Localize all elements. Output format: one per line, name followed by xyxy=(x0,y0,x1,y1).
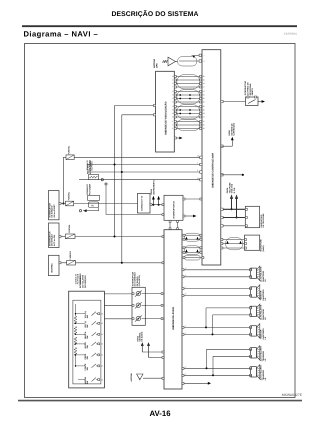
battery box xyxy=(49,255,60,275)
fuse B xyxy=(66,191,74,206)
wires to speaker SP1 xyxy=(182,267,252,278)
svg-text:46: 46 xyxy=(203,75,205,78)
telephone box xyxy=(245,206,265,227)
svg-text:26: 26 xyxy=(172,105,174,108)
svg-text:30: 30 xyxy=(172,109,174,112)
svg-text:ON ou START: ON ou START xyxy=(53,204,56,218)
wire steering 1 xyxy=(104,293,132,295)
svg-text:EKS00BA1: EKS00BA1 xyxy=(284,33,298,36)
svg-text:5: 5 xyxy=(172,124,173,127)
shielded pair audio-navi 2 xyxy=(183,246,202,255)
junction box T xyxy=(138,193,151,213)
svg-text:DE TELEFONE: DE TELEFONE xyxy=(262,213,265,228)
command switch label xyxy=(132,271,141,286)
ignition switch ON box xyxy=(48,191,59,220)
svg-text:18: 18 xyxy=(203,127,205,130)
svg-text:SW: SW xyxy=(86,324,89,327)
svg-text:18: 18 xyxy=(172,97,174,100)
relay AV box xyxy=(88,202,98,208)
bottom separator rule xyxy=(18,400,302,402)
svg-text:DESCRIÇÃO DO SISTEMA: DESCRIÇÃO DO SISTEMA xyxy=(112,9,199,18)
svg-text:2: 2 xyxy=(185,332,186,335)
svg-text:10: 10 xyxy=(203,79,205,82)
svg-text:ANTENA: ANTENA xyxy=(130,373,133,382)
svg-text:6: 6 xyxy=(185,274,186,277)
bus X2 xyxy=(121,115,123,263)
accessory relay label xyxy=(87,160,92,174)
wire L2 to audio xyxy=(59,236,164,238)
svg-text:32: 32 xyxy=(203,101,205,104)
svg-text:3: 3 xyxy=(197,169,198,172)
svg-text:SW: SW xyxy=(86,381,89,384)
svg-text:30: 30 xyxy=(101,312,103,315)
svg-text:SW: SW xyxy=(86,345,89,348)
svg-text:36: 36 xyxy=(203,105,205,108)
svg-text:SW: SW xyxy=(86,356,89,359)
speaker SP3 xyxy=(250,304,268,320)
svg-text:3: 3 xyxy=(185,366,186,369)
gps antenna shielded cable xyxy=(178,54,205,66)
wire ACC to display xyxy=(115,104,156,106)
svg-text:MKWA0827E: MKWA0827E xyxy=(282,393,303,397)
links AV to audio xyxy=(169,220,178,229)
svg-text:FUSÍVEL: FUSÍVEL xyxy=(69,250,72,259)
svg-text:DE DIREÇÃO: DE DIREÇÃO xyxy=(84,275,87,288)
svg-text:(VOLANTE): (VOLANTE) xyxy=(138,275,141,286)
wire relay to navi 1 xyxy=(88,162,202,166)
bus tap arrows xyxy=(150,180,160,206)
svg-text:FUSÍVEL: FUSÍVEL xyxy=(68,145,71,154)
svg-text:25: 25 xyxy=(203,94,205,97)
command switch box xyxy=(132,287,163,325)
wire T to AV box xyxy=(150,204,164,206)
gps antenna label xyxy=(153,58,159,68)
spare output wire xyxy=(221,174,244,176)
relay lower box xyxy=(88,195,100,200)
AV switch box xyxy=(164,195,183,220)
fuse A xyxy=(66,145,74,160)
shielded link audio-navi 3 xyxy=(183,255,204,260)
telephone wires xyxy=(221,208,246,227)
telephone tap arrows xyxy=(230,195,238,219)
svg-text:ILUMINAÇÃO: ILUMINAÇÃO xyxy=(232,122,235,135)
speaker SP1 xyxy=(250,266,268,282)
fuse A note xyxy=(86,159,93,170)
svg-text:10: 10 xyxy=(197,154,199,157)
svg-text:36: 36 xyxy=(101,378,103,381)
steering switch label xyxy=(79,273,87,288)
svg-text:SW: SW xyxy=(86,367,89,370)
svg-text:(NAVI): (NAVI) xyxy=(262,245,265,251)
svg-text:BARRAMENTO: BARRAMENTO xyxy=(152,180,155,195)
microphone box xyxy=(245,235,265,251)
svg-text:11: 11 xyxy=(172,90,174,93)
svg-text:34: 34 xyxy=(101,354,103,357)
steering switch resistor box xyxy=(69,291,105,388)
shielded pair audio-navi 1 xyxy=(183,233,202,241)
relay lower label xyxy=(86,183,91,195)
svg-text:8: 8 xyxy=(204,60,205,63)
wire relay to navi 3 xyxy=(79,177,202,181)
connector circle 1 xyxy=(101,179,103,181)
svg-text:AV: AV xyxy=(91,204,95,207)
svg-text:40: 40 xyxy=(203,109,205,112)
radio antenna xyxy=(130,373,164,382)
svg-text:21: 21 xyxy=(203,90,205,93)
accessory relay box xyxy=(88,175,98,180)
diagram frame xyxy=(25,44,296,398)
fuse C xyxy=(67,250,76,265)
svg-text:FUSÍVEL: FUSÍVEL xyxy=(68,191,71,200)
svg-text:13: 13 xyxy=(203,82,205,85)
svg-text:7: 7 xyxy=(185,286,186,289)
fuse B2 xyxy=(65,224,75,239)
svg-text:22: 22 xyxy=(172,101,174,104)
wire fuseA to navi xyxy=(74,154,202,158)
svg-text:15: 15 xyxy=(203,124,205,127)
svg-text:ACC ou ON: ACC ou ON xyxy=(53,235,56,246)
navi control unit U1 xyxy=(202,50,221,265)
svg-text:33: 33 xyxy=(172,112,174,115)
svg-text:UNIDADE DE VISUALIZAÇÃO: UNIDADE DE VISUALIZAÇÃO xyxy=(163,101,167,135)
svg-text:E CIA.: E CIA. xyxy=(233,187,236,193)
audio aux arrows xyxy=(136,331,164,358)
svg-text:CONSULTA T+A: CONSULTA T+A xyxy=(141,195,144,211)
wires to speaker SP2 xyxy=(182,286,252,297)
svg-text:4: 4 xyxy=(185,373,186,376)
connector circle 2 xyxy=(105,183,164,216)
fuse C note xyxy=(74,273,81,284)
svg-text:1: 1 xyxy=(185,325,186,328)
svg-text:28: 28 xyxy=(203,97,205,100)
riser L1 to fuse A xyxy=(62,157,66,204)
parking brake switch xyxy=(221,96,265,106)
wire steering 3 xyxy=(104,318,132,320)
display unit U2 xyxy=(156,71,175,152)
audio unit U3 xyxy=(164,230,182,389)
svg-text:UNIDADE DE CONTROLE NAVI: UNIDADE DE CONTROLE NAVI xyxy=(211,153,214,188)
speaker SP4 xyxy=(250,324,268,340)
speaker SP5 xyxy=(250,345,268,361)
svg-text:SW: SW xyxy=(86,315,89,318)
bus X1 xyxy=(114,106,116,237)
speaker SP6 xyxy=(250,364,268,380)
svg-text:37: 37 xyxy=(172,116,174,119)
heading rule xyxy=(22,25,297,27)
svg-text:FUSÍVEL: FUSÍVEL xyxy=(68,224,71,233)
svg-text:17: 17 xyxy=(203,86,205,89)
svg-text:31: 31 xyxy=(101,322,103,325)
wire AV to navi xyxy=(183,198,202,200)
svg-text:GPS: GPS xyxy=(156,63,159,68)
svg-text:1: 1 xyxy=(172,120,173,123)
parking brake switch label xyxy=(244,80,254,95)
svg-text:AV-16: AV-16 xyxy=(149,409,171,418)
svg-text:3: 3 xyxy=(172,82,173,85)
shielded harness display to navi xyxy=(172,75,204,131)
svg-text:DE ÁUDIO: DE ÁUDIO xyxy=(141,331,144,341)
svg-text:7: 7 xyxy=(204,54,205,57)
wire battery to audio xyxy=(59,262,164,264)
wire relay to navi 2 xyxy=(88,169,202,173)
svg-text:0: 0 xyxy=(172,79,173,82)
svg-text:UNIDADE DE ÁUDIO: UNIDADE DE ÁUDIO xyxy=(171,307,175,330)
illumination output xyxy=(221,122,236,147)
svg-text:43: 43 xyxy=(203,112,205,115)
svg-text:BATERIA: BATERIA xyxy=(51,263,54,273)
svg-text:15: 15 xyxy=(172,94,174,97)
svg-text:MENTO: MENTO xyxy=(251,88,254,96)
wire AV out arrow xyxy=(183,215,197,218)
svg-text:8: 8 xyxy=(172,127,173,130)
svg-text:SW: SW xyxy=(86,335,89,338)
svg-text:8: 8 xyxy=(185,293,186,296)
svg-text:Diagrama – NAVI –: Diagrama – NAVI – xyxy=(24,30,99,39)
svg-text:32: 32 xyxy=(101,333,103,336)
speaker SP2 xyxy=(250,285,268,301)
svg-text:5: 5 xyxy=(185,267,186,270)
wires to speakers SP5 SP6 xyxy=(182,349,252,376)
telephone adapter labels xyxy=(226,182,236,193)
wire steering 2 xyxy=(104,305,132,307)
svg-text:16: 16 xyxy=(197,177,199,180)
gps antenna symbol xyxy=(163,57,178,66)
svg-text:35: 35 xyxy=(101,365,103,368)
display ground pin xyxy=(174,137,182,140)
svg-text:ACESSÓRIOS: ACESSÓRIOS xyxy=(89,160,92,174)
svg-text:7: 7 xyxy=(172,86,173,89)
svg-text:INTERRUPTOR AV: INTERRUPTOR AV xyxy=(172,200,175,218)
svg-text:11: 11 xyxy=(203,120,205,123)
relay feed wire xyxy=(79,208,98,213)
wires to speakers SP3 SP4 xyxy=(182,308,252,336)
svg-text:33: 33 xyxy=(101,343,103,346)
wire L1 xyxy=(59,203,138,205)
audio ground wire xyxy=(182,382,211,385)
svg-text:PG-POWER: PG-POWER xyxy=(88,183,91,195)
svg-text:47: 47 xyxy=(203,116,205,119)
svg-text:36: 36 xyxy=(172,75,174,78)
ignition switch ACC box xyxy=(48,223,59,248)
microphone shielded cable xyxy=(221,238,245,250)
wire BAT to display xyxy=(122,114,156,116)
svg-text:2: 2 xyxy=(197,162,198,165)
